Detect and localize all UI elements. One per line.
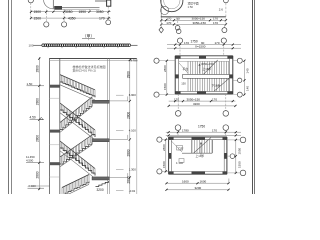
svg-text:-0.02: -0.02 [129,189,136,193]
svg-text:2800: 2800 [126,176,130,183]
svg-text:2800: 2800 [126,149,130,156]
bottom plan: bottom dim row 1 [165,179,229,185]
bottom plan: top wall [169,137,227,140]
section: flight 1 (down-right) [60,75,95,100]
bottom plan: left axis bubble top [157,137,169,142]
bottom plan: left dim line [162,139,167,173]
svg-text:1:50: 1:50 [188,5,194,9]
bottom plan: stair side wall line [191,140,193,154]
section: floor slab 3 [92,173,128,180]
top-left plan: door swing arc [44,0,54,9]
top-right plan: note text [188,2,199,9]
middle plan: bottom dim row 1 [169,97,236,102]
svg-text:170: 170 [166,21,171,25]
section: flight 4 (down-left) [60,135,92,167]
middle plan: right axis bubble mid [233,78,242,82]
middle plan: left axis bubble top [154,58,175,63]
svg-text:1.300: 1.300 [129,168,136,172]
middle plan: right dim line [243,60,249,96]
svg-text:4350: 4350 [68,17,76,21]
section: flight 3 (down-right) [60,103,95,140]
bottom plan: left wall [169,137,172,174]
bottom plan: tread right edge [212,140,214,154]
top-left plan: axis bubble B [62,10,67,28]
svg-text:1550: 1550 [237,161,241,168]
bottom plan: right dim line [235,139,242,174]
top-right plan: right axis line + top bubble [219,0,229,25]
section: note text [73,64,106,73]
top-right plan: small circle [161,6,169,14]
bottom plan: entry boxes [177,146,185,163]
top-left plan: door jamb [52,0,54,9]
svg-text:170: 170 [212,97,217,101]
svg-text:1500: 1500 [34,17,42,21]
top-left plan: upper wall line [95,0,107,2]
middle plan: break line upper [203,60,217,74]
svg-text:2800: 2800 [36,171,40,178]
svg-text:集88ZJ401 P8 (1): 集88ZJ401 P8 (1) [73,68,97,73]
bottom plan: texts [176,147,204,165]
svg-text:3050+150: 3050+150 [201,62,214,66]
top-left plan: column box [107,0,111,6]
svg-text:下18步: 下18步 [212,83,221,87]
svg-text:3050+150: 3050+150 [193,21,207,25]
svg-text:3050: 3050 [96,10,104,14]
section: level mark 1.50 [27,82,45,86]
middle plan: corridor line [179,60,230,62]
middle plan: left dim line [163,60,168,96]
middle plan: break line lower [214,78,229,91]
bottom plan: bottom dim row 2 [165,186,229,191]
top-right plan: left wall line [160,0,162,18]
middle plan: right axis bubble top [233,58,243,63]
middle plan: top axis bubble L [177,38,182,56]
middle plan: up arrow [198,63,200,73]
svg-text:3200: 3200 [193,102,200,106]
axis bubble below middle plan R [223,94,229,116]
svg-text:2800: 2800 [126,71,130,78]
section: wall band 3 [50,162,60,165]
bottom plan: flight treads [192,140,212,154]
section: ground line [30,185,50,187]
top-left plan: axis bubble (cut at top) [28,0,33,18]
axis bubble above bottom plan L [175,125,181,137]
middle plan: top dim row 2 [167,45,241,50]
section: left dim texts (rotated) [36,65,40,178]
section: level mark 4.50 [30,116,45,120]
svg-text:170: 170 [212,129,217,133]
section: small steps below slab 3 [96,181,109,187]
section: stairwell right wall [107,58,109,194]
top-right plan: bottom wall [161,16,226,17]
section: flight 6 (down-left, cut) [62,175,89,198]
svg-text:4.50: 4.50 [30,116,36,120]
section: outer right boundary [136,58,138,194]
bottom plan: top dim row 2 [166,134,241,136]
middle plan: landing diagonal [179,63,188,73]
top-right plan: double axis bubbles [175,18,181,34]
middle plan: upper flight treads [188,61,229,74]
svg-text:140: 140 [246,68,250,73]
top-right plan: dim row 2 [160,21,227,26]
svg-text:3200: 3200 [195,186,202,190]
section: level marks bottom [26,155,44,162]
section: left wall [50,58,60,194]
svg-text:4.100: 4.100 [129,129,136,133]
middle plan: top wall [175,56,233,59]
svg-text:1500: 1500 [162,161,166,168]
section: wall band 1 (mid landing) [50,85,60,88]
svg-text:4.500: 4.500 [26,159,34,163]
section: top slab [50,58,137,60]
svg-text:6.900: 6.900 [129,93,136,97]
top-left plan: extension line [89,10,91,13]
axis bubble below middle plan L [175,94,181,116]
section: slab surface lines at wall [50,98,60,177]
border frame left [9,0,12,194]
section: level mark ground [28,184,45,188]
top-left plan: axis bubble C [106,7,111,25]
svg-text:170: 170 [99,17,105,21]
section: right dim line [129,58,131,194]
svg-text:2800: 2800 [162,144,166,151]
svg-text:上18步: 上18步 [203,67,212,71]
section: right level dashes [116,95,124,190]
top-left plan: wall pier (filled) [54,6,62,10]
top-left plan: dim row 2 [30,17,111,21]
middle plan: bottom dim row 2 [168,102,237,107]
svg-text:150: 150 [181,82,186,86]
top-right plan: dim row 1 [160,17,227,22]
svg-text:170: 170 [215,41,220,45]
svg-text:170: 170 [174,97,179,101]
bottom plan: up arrow [200,142,202,156]
bottom plan: right wall [224,137,227,174]
section: floor slab 2 [92,135,128,142]
middle plan: right axis bubble bottom [233,92,243,97]
middle plan: top dim row 1 [167,41,241,46]
svg-text:1500: 1500 [163,83,167,90]
svg-text:1600: 1600 [200,179,207,183]
middle plan: left wall [175,56,178,94]
svg-text:3050+150: 3050+150 [187,97,201,101]
axis bubble above bottom plan R [223,125,229,137]
svg-text:1750: 1750 [191,39,198,43]
svg-text:1590: 1590 [79,10,87,14]
svg-text:170: 170 [213,21,218,25]
svg-text:3200: 3200 [97,188,104,192]
top-left plan: dim row 1 [30,10,111,14]
top-left plan: wall double line [62,7,100,9]
svg-text:140: 140 [246,86,250,91]
svg-text:170: 170 [184,41,189,45]
svg-text:1780: 1780 [182,129,189,133]
bottom plan: landing diagonal [171,141,182,152]
svg-text:1550: 1550 [237,147,241,154]
middle plan: right wall [229,56,232,94]
middle plan: bottom wall [175,91,233,94]
svg-text:2800: 2800 [36,98,40,105]
svg-text:1500: 1500 [34,10,42,14]
bottom plan: left axis bubble bottom [157,169,169,174]
svg-text:平台: 平台 [183,67,189,71]
svg-text:1750: 1750 [198,124,205,128]
svg-text:上19步: 上19步 [196,154,205,158]
svg-text:1:100: 1:100 [176,161,183,165]
section: right level texts [129,59,138,194]
middle plan: left axis bubble bottom [154,92,175,97]
bottom plan: right axis bubble bottom [227,170,246,176]
bottom plan: right axis bubble mid [227,154,235,159]
top-right plan: right axis bubble [222,25,227,32]
top-right plan: axis diamond [159,18,163,33]
section: wall band 2 [50,130,60,133]
svg-text:2800: 2800 [36,135,40,142]
svg-text:1600: 1600 [182,179,189,183]
drawing title (jia) [82,34,95,41]
middle plan: mid handrail band [183,74,230,78]
section: flight 5 (down-right) [60,141,95,178]
section: right rotated dim texts [126,71,130,184]
top-left plan: axis bubble A [44,10,49,28]
middle plan: lower flight treads [188,78,229,91]
section: floor slab 1 [92,96,128,103]
svg-text:100: 100 [29,43,34,47]
border frame right [253,0,255,194]
hatched slab band (circle chain) [34,44,138,48]
bottom plan: right axis bubble top [227,137,246,143]
bottom plan: bottom wall [169,172,227,175]
svg-text:（甲）: （甲） [83,34,95,39]
bottom plan: break line [194,138,211,154]
section: left dimension line [38,57,40,190]
svg-text:X=1500: X=1500 [195,45,206,49]
svg-text:2800: 2800 [36,65,40,72]
svg-text:2800: 2800 [126,112,130,119]
bottom plan: handrail line [182,152,212,154]
svg-text:2.6: 2.6 [219,8,224,12]
svg-text:3050: 3050 [65,10,73,14]
svg-text:90: 90 [176,17,180,21]
svg-text:1.50: 1.50 [27,82,33,86]
top-right plan: inner circle [164,0,180,9]
middle plan: top axis bubble R [221,38,226,56]
section: flight 2 (down-left) [60,97,92,132]
svg-text:2800: 2800 [163,65,167,72]
bottom plan: top dim row 1 [166,129,241,134]
top-right plan: large circle [161,0,183,12]
middle plan: texts [181,62,220,87]
